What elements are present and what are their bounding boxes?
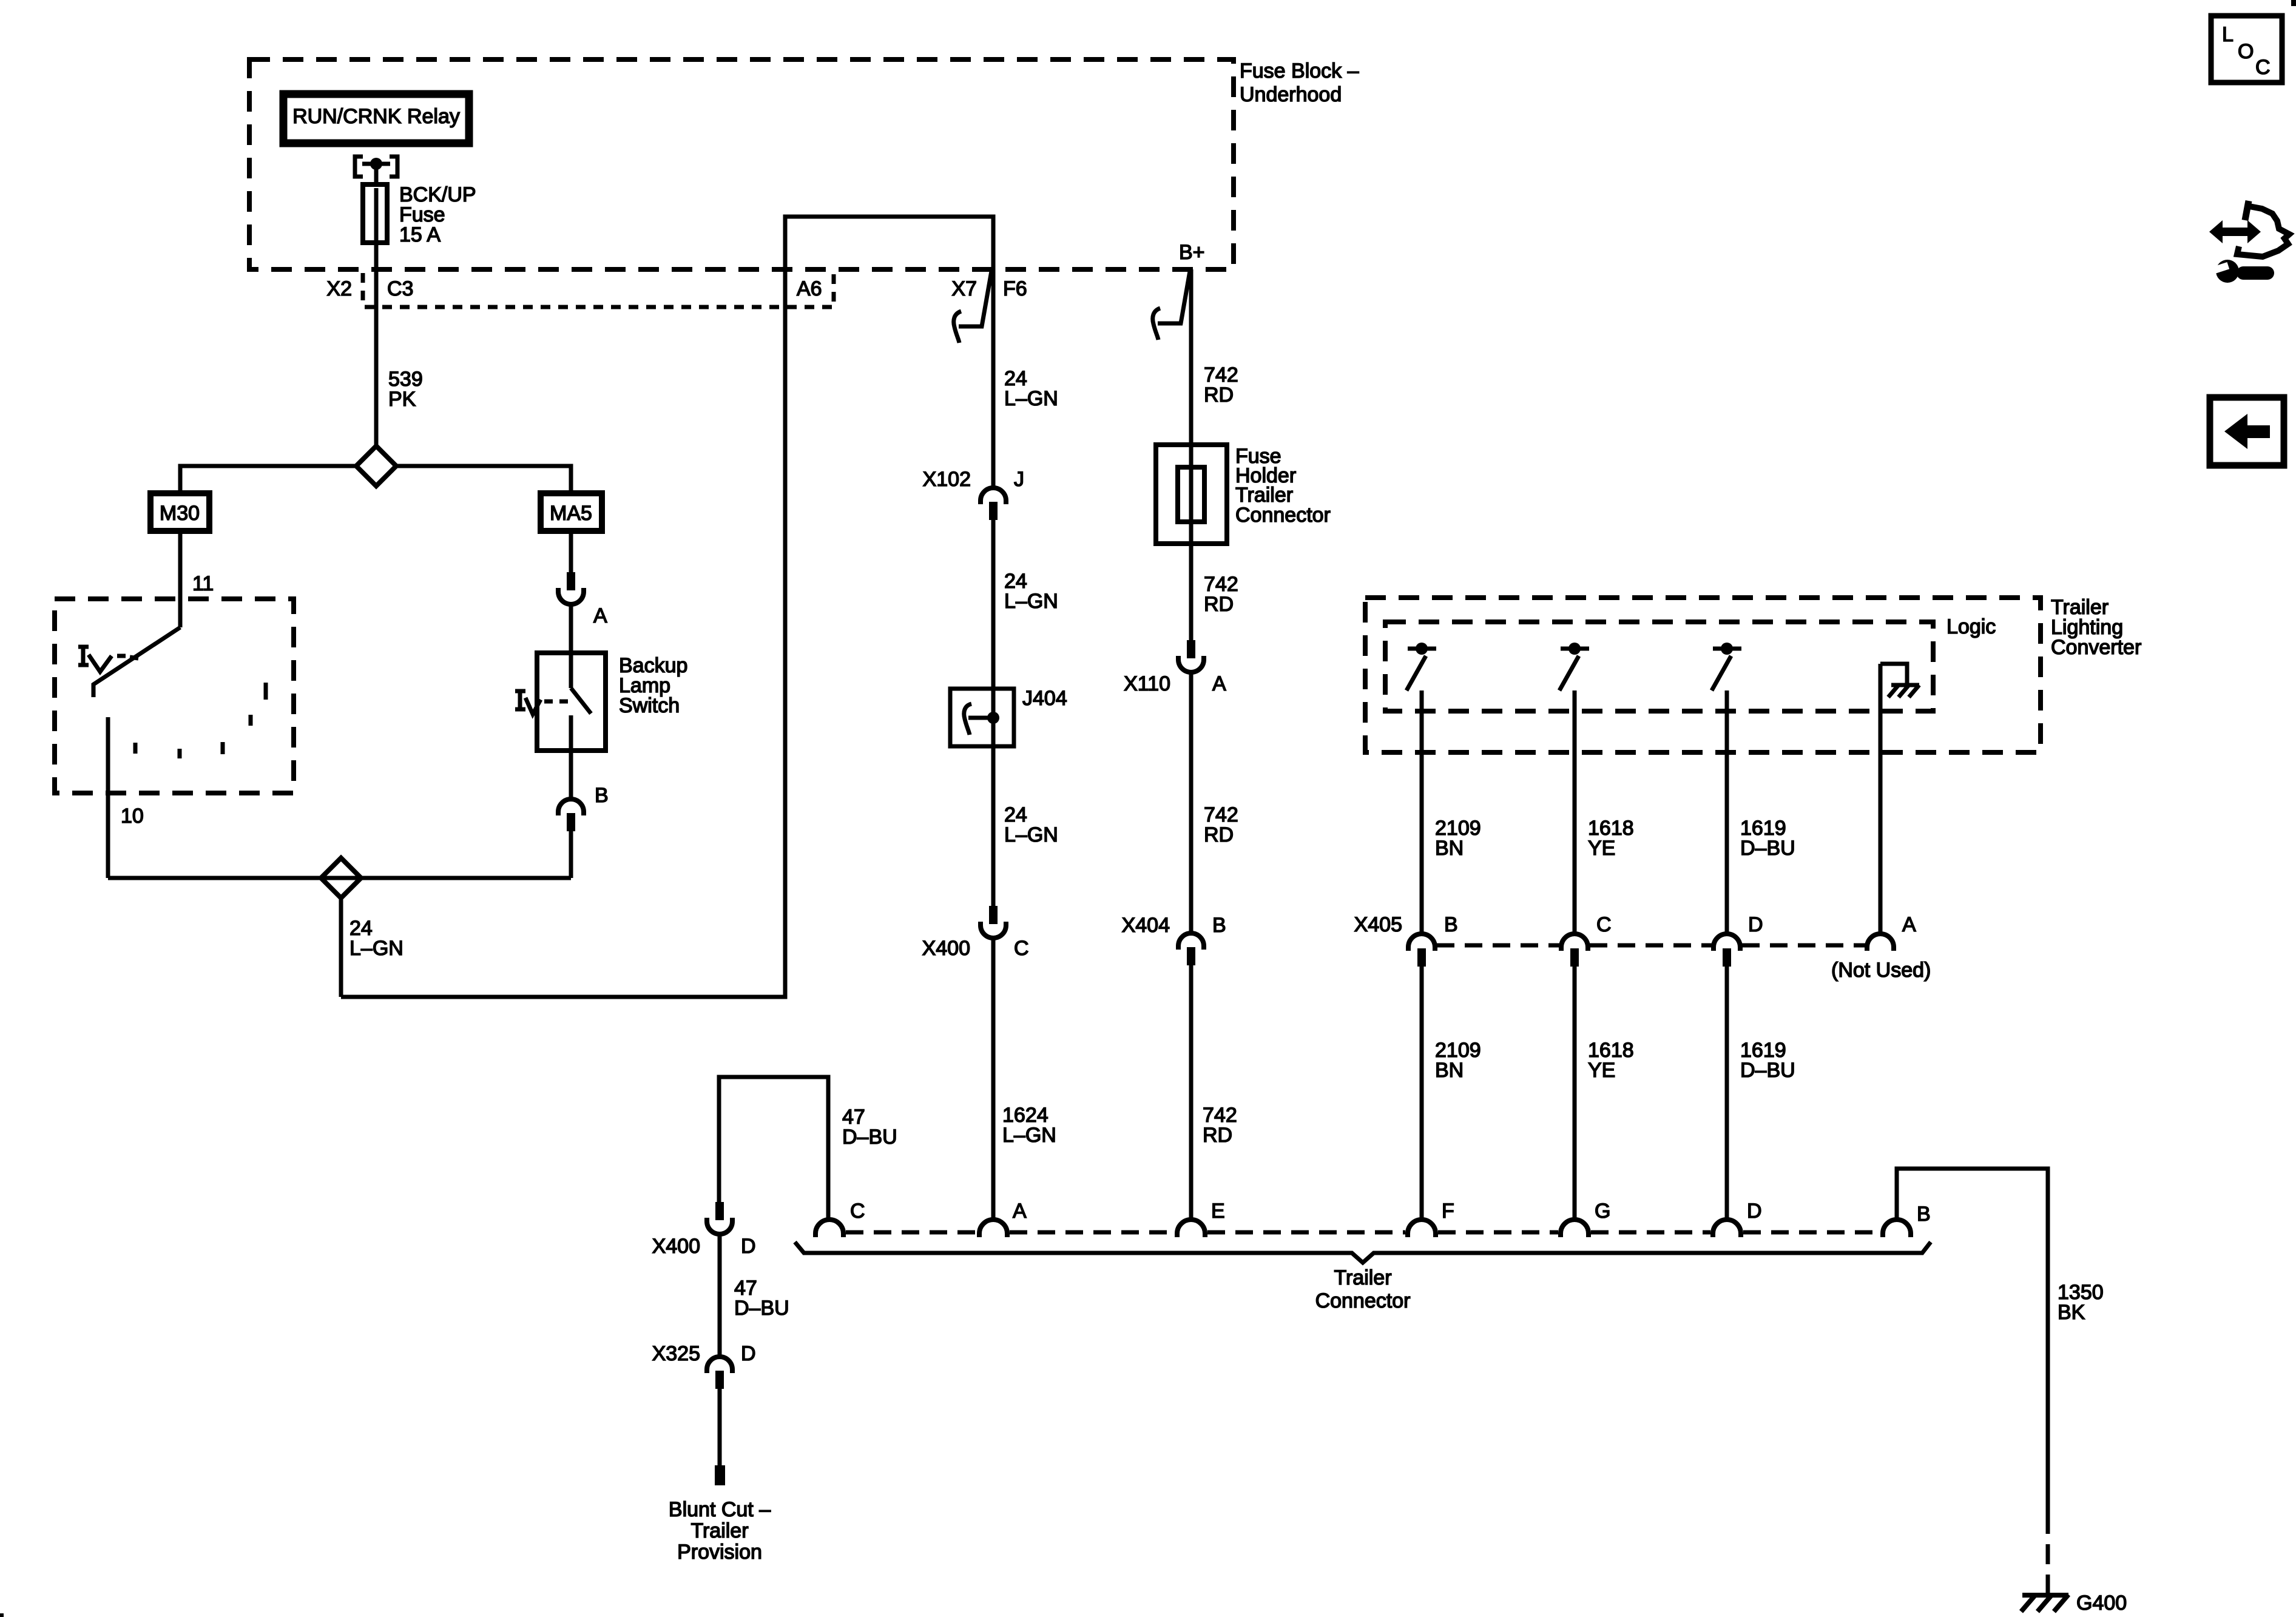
- backup lamp switch blade: [571, 688, 591, 714]
- svg-text:G400: G400: [2076, 1592, 2127, 1615]
- svg-text:BK: BK: [2058, 1301, 2085, 1324]
- svg-text:RD: RD: [1204, 823, 1234, 846]
- svg-text:M30: M30: [160, 502, 200, 525]
- svg-text:X400: X400: [652, 1235, 700, 1258]
- svg-text:RD: RD: [1204, 383, 1234, 407]
- svg-text:L–GN: L–GN: [1002, 1124, 1056, 1147]
- trailer connector pin F: [1408, 1200, 1454, 1237]
- connector X400 pin D: [652, 1202, 756, 1258]
- svg-text:D: D: [1747, 1200, 1762, 1223]
- wire fuse to X2 C3: [374, 243, 379, 446]
- wire X405 C to trailer connector G: [1573, 967, 1577, 1220]
- icon connector-service (double arrow, connector outline, wrench): [2209, 201, 2289, 283]
- wire B+ to fuse holder: [1189, 269, 1194, 445]
- svg-text:15 A: 15 A: [399, 223, 441, 246]
- svg-text:A6: A6: [797, 277, 822, 300]
- svg-text:Logic: Logic: [1947, 615, 1996, 638]
- svg-text:Underhood: Underhood: [1240, 83, 1342, 106]
- svg-text:X400: X400: [922, 937, 970, 960]
- icon back-arrow box: [2210, 397, 2284, 465]
- wire switch2 to X405 C: [1573, 690, 1577, 934]
- wire X405 B to trailer connector F: [1420, 967, 1424, 1220]
- wire A to switch box: [569, 604, 573, 688]
- splice node S2 (diamond): [321, 858, 361, 898]
- svg-text:Fuse Block –: Fuse Block –: [1240, 59, 1359, 83]
- svg-text:D: D: [1748, 913, 1763, 936]
- connector pin B (backup lamp switch): [558, 784, 609, 831]
- connector X102 pin J: [923, 468, 1024, 520]
- svg-text:X325: X325: [652, 1342, 700, 1365]
- svg-text:Switch: Switch: [619, 694, 680, 717]
- connector X405 dashed link line: [1437, 944, 1559, 948]
- logic module dashed box: [1385, 622, 1933, 711]
- stray mark bottom-left corner: [0, 1613, 4, 1617]
- relay output terminal clip: [355, 157, 397, 177]
- wire diamond to M30 branch: [180, 466, 356, 493]
- relay RUN/CRNK Relay: [283, 94, 469, 143]
- svg-text:L–GN: L–GN: [1004, 387, 1058, 410]
- svg-text:D–BU: D–BU: [842, 1126, 897, 1149]
- svg-text:Converter: Converter: [2051, 636, 2141, 659]
- svg-text:RUN/CRNK Relay: RUN/CRNK Relay: [292, 105, 460, 128]
- svg-text:BN: BN: [1435, 837, 1464, 860]
- trailer connector pin A: [979, 1200, 1027, 1237]
- svg-text:A: A: [1212, 672, 1226, 695]
- converter switch 2: [1559, 643, 1589, 690]
- wire X102 to J404: [991, 520, 996, 689]
- wire diamond to MA5 branch: [396, 466, 571, 493]
- splice node S1 (diamond): [356, 446, 396, 486]
- wire S2 down to loop: [339, 898, 343, 997]
- svg-text:D–BU: D–BU: [1740, 1059, 1795, 1082]
- fuse holder trailer connector: [1156, 445, 1331, 544]
- PNP switch dashed box: [55, 599, 294, 793]
- fuse block underhood dashed box: [249, 59, 1234, 269]
- wire MA5 to backup lamp switch pin A: [569, 531, 573, 572]
- connector X325 pin D: [652, 1342, 756, 1389]
- svg-text:X7: X7: [951, 277, 977, 300]
- trailer lighting converter dashed box: [1365, 598, 2041, 752]
- backup lamp switch box: [537, 653, 606, 751]
- trailer connector pin E: [1177, 1200, 1225, 1237]
- connector X405 pin B: [1408, 913, 1458, 967]
- wire bottom run pin10 to backup switch B: [108, 876, 571, 880]
- wire relay to fuse: [374, 164, 379, 184]
- splice pack J404: [950, 687, 1067, 746]
- wire 24 L-GN X7 to X102: [991, 269, 996, 488]
- svg-text:C: C: [850, 1200, 865, 1223]
- svg-text:PK: PK: [388, 388, 416, 411]
- svg-text:Blunt Cut –: Blunt Cut –: [669, 1498, 771, 1521]
- svg-text:B: B: [1212, 914, 1226, 937]
- converter internal ground: [1880, 664, 1919, 697]
- svg-text:C: C: [1014, 937, 1029, 960]
- svg-text:X110: X110: [1124, 672, 1170, 695]
- wire ground to X405 A: [1879, 664, 1883, 934]
- svg-text:MA5: MA5: [550, 502, 592, 525]
- svg-text:Trailer: Trailer: [1334, 1266, 1391, 1289]
- connector MA5: [541, 493, 602, 531]
- trailer connector pin G: [1561, 1200, 1610, 1237]
- wire M30 to PNP switch pin 11: [178, 531, 183, 627]
- svg-text:L: L: [2222, 23, 2234, 46]
- ground G400: [2021, 1592, 2127, 1615]
- svg-text:C3: C3: [387, 277, 413, 300]
- svg-text:B: B: [595, 784, 609, 807]
- svg-text:A: A: [1902, 913, 1916, 936]
- backup lamp switch actuator symbol: [515, 691, 568, 714]
- connector A6 dotted tick: [832, 274, 836, 305]
- wire X405 D to trailer connector D: [1725, 967, 1729, 1220]
- wire X400 C to trailer connector A: [991, 938, 996, 1220]
- svg-text:L–GN: L–GN: [1004, 590, 1058, 613]
- svg-text:10: 10: [121, 805, 144, 828]
- svg-text:B+: B+: [1179, 241, 1205, 264]
- stray mark top-right corner: [2291, 0, 2296, 6]
- icon LOC box (top right): [2211, 16, 2282, 83]
- wire trailer B elbow to ground drop: [1897, 1169, 2048, 1514]
- svg-text:(Not Used): (Not Used): [1831, 959, 1931, 982]
- wire PNP pin 10 down: [106, 717, 110, 878]
- svg-text:A: A: [1013, 1200, 1027, 1223]
- in-line harness dotted line X2-C3 to A6: [365, 305, 832, 309]
- svg-text:RD: RD: [1204, 593, 1234, 616]
- svg-text:B: B: [1917, 1203, 1931, 1226]
- trailer connector brace: [795, 1242, 1931, 1263]
- svg-text:X102: X102: [923, 468, 971, 491]
- wire J404 to X400 C: [991, 746, 996, 906]
- svg-text:C: C: [1596, 913, 1612, 936]
- connector pin A (backup lamp switch): [558, 572, 607, 627]
- svg-text:D–BU: D–BU: [734, 1297, 789, 1320]
- svg-text:BN: BN: [1435, 1059, 1464, 1082]
- svg-text:X2: X2: [326, 277, 352, 300]
- connector X405 pin D: [1714, 913, 1763, 967]
- fuse BCK/UP 15A: [363, 183, 476, 246]
- svg-text:F: F: [1442, 1200, 1454, 1223]
- svg-text:B: B: [1444, 913, 1458, 936]
- svg-text:YE: YE: [1588, 837, 1615, 860]
- svg-text:J: J: [1014, 468, 1024, 491]
- wire X404 to trailer connector E: [1189, 965, 1194, 1220]
- PNP switch blade: [93, 627, 180, 697]
- svg-text:C: C: [2255, 56, 2271, 79]
- wire X400 D to X325 D: [718, 1234, 722, 1357]
- wire switch3 to X405 D: [1725, 690, 1729, 934]
- connector X405 pin C: [1561, 913, 1612, 967]
- wire branch 47 D-BU elbow: [719, 1077, 828, 1220]
- trailer connector pin D: [1713, 1200, 1762, 1237]
- wire switch1 to X405 B: [1420, 690, 1424, 934]
- svg-text:X404: X404: [1122, 914, 1170, 937]
- svg-text:X405: X405: [1354, 913, 1402, 936]
- terminal lead at B+: [1153, 271, 1190, 340]
- converter switch 1: [1406, 643, 1436, 690]
- converter switch 3: [1712, 643, 1741, 690]
- svg-text:Trailer: Trailer: [690, 1519, 748, 1542]
- svg-text:A: A: [593, 604, 607, 627]
- svg-text:D: D: [741, 1235, 756, 1258]
- trailer connector pin C: [815, 1200, 865, 1237]
- trailer connector pin B: [1883, 1203, 1931, 1237]
- svg-text:J404: J404: [1022, 687, 1067, 710]
- svg-text:11: 11: [192, 572, 214, 595]
- svg-text:Connector: Connector: [1235, 504, 1331, 527]
- svg-text:YE: YE: [1588, 1059, 1615, 1082]
- wire X325 to blunt cut: [718, 1389, 722, 1465]
- connector X110 pin A: [1124, 640, 1226, 695]
- connector X404 pin B: [1122, 914, 1226, 965]
- svg-text:D: D: [741, 1342, 756, 1365]
- connector X405 pin A (not used): [1831, 913, 1931, 982]
- PNP switch mechanical link dashes: [135, 683, 266, 758]
- wire loop to fuse block A6/X7: [341, 217, 993, 997]
- wire fuse holder to X110: [1189, 544, 1194, 640]
- svg-text:O: O: [2238, 40, 2254, 63]
- connector X2/C3 dotted separator: [361, 273, 365, 305]
- svg-text:Provision: Provision: [677, 1541, 762, 1564]
- svg-text:D–BU: D–BU: [1740, 837, 1795, 860]
- svg-text:Connector: Connector: [1315, 1289, 1411, 1312]
- PNP switch actuator symbol: [78, 647, 138, 672]
- svg-text:L–GN: L–GN: [349, 937, 403, 960]
- svg-text:L–GN: L–GN: [1004, 823, 1058, 846]
- wire switch to pin B: [569, 715, 573, 799]
- blunt cut terminal: [715, 1465, 725, 1485]
- svg-text:F6: F6: [1003, 277, 1027, 300]
- svg-text:RD: RD: [1203, 1124, 1232, 1147]
- wire dashed drop to G400: [2046, 1514, 2050, 1595]
- connector M30: [150, 493, 209, 531]
- trailer connector dashed link line: [846, 1230, 1880, 1235]
- connector X400 pin C: [922, 906, 1029, 960]
- terminal lead at X7/F6: [954, 271, 991, 343]
- wire pin B down to bottom run: [569, 831, 573, 878]
- svg-text:E: E: [1211, 1200, 1225, 1223]
- wire X110 to X404: [1189, 672, 1194, 932]
- svg-text:G: G: [1595, 1200, 1610, 1223]
